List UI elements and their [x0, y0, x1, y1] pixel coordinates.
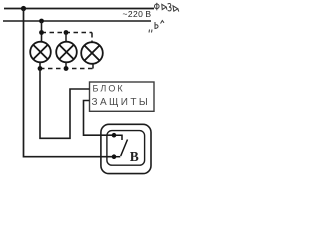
label ~220В: [123, 9, 152, 19]
svg-text:ЗАЩИТЫ: ЗАЩИТЫ: [92, 97, 151, 108]
node: bottom bus at lamp EL1: [38, 66, 43, 71]
switch S1 (contacts and lever): [114, 135, 127, 157]
svg-text:~220 В: ~220 В: [123, 9, 152, 19]
label ЗАЩИТЫ (line 2): [92, 97, 151, 108]
label В (switch designator): [130, 149, 139, 164]
wire: phase drop to switch bottom terminal: [24, 9, 115, 157]
switch box inner rounded frame: [107, 131, 145, 166]
node: switch top terminal: [112, 133, 117, 138]
label ноль (handwritten, below neutral end): [149, 21, 164, 33]
node: top bus at lamp EL2: [64, 30, 69, 35]
label БЛОК (line 1): [93, 84, 125, 94]
lamp EL2: [56, 42, 77, 63]
svg-text:БЛОК: БЛОК: [93, 84, 125, 94]
node: phase tap junction: [21, 6, 26, 11]
node: switch bottom terminal: [112, 154, 117, 159]
node: neutral tap junction: [39, 19, 44, 24]
wire: top bus stub to lamp EL2: [65, 33, 67, 43]
node: bottom bus at lamp EL2: [64, 66, 69, 71]
protection block box: [90, 82, 155, 111]
wire: lamp EL1 bottom stub: [39, 62, 41, 68]
wire: dashed lamp top bus: [42, 33, 93, 43]
label ФАЗА (handwritten, top right): [155, 3, 179, 12]
wire: lamp EL2 bottom stub: [65, 62, 67, 68]
wire: dashed lamp bottom bus: [40, 64, 93, 69]
wire: protection block output to switch top terminal: [84, 101, 115, 136]
lamp EL1: [30, 42, 51, 63]
lamp EL3: [81, 42, 103, 64]
wire: neutral drop to lamp top bus: [41, 21, 43, 42]
wire L2 (neutral line): [3, 20, 151, 22]
svg-text:В: В: [130, 149, 139, 164]
switch box outer rounded frame: [101, 124, 151, 173]
wire L1 (phase line): [4, 8, 154, 10]
wire: lamp return down-right-up to protection block input: [40, 69, 90, 139]
node: top bus at lamp EL1: [39, 30, 44, 35]
